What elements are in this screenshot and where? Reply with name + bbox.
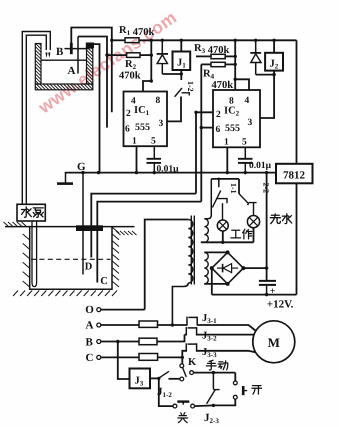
label 作 (working lamp)	[243, 229, 252, 239]
wire J1-2 pivot down to button 关	[159, 378, 173, 406]
svg-text:6: 6	[216, 125, 221, 135]
+12V bottom rail	[212, 294, 297, 296]
label 无 (no water)	[270, 214, 280, 224]
svg-text:4: 4	[245, 96, 250, 106]
svg-text:D: D	[85, 262, 93, 273]
svg-text:7812: 7812	[283, 170, 306, 182]
wire IC2 pin6	[200, 64, 202, 201]
well mouth mounting bar	[76, 225, 103, 231]
wire bridge right corner to filter cap	[243, 267, 266, 269]
wire J1 top to rail	[180, 40, 182, 51]
svg-text:M: M	[268, 335, 280, 350]
svg-text:3: 3	[248, 118, 253, 128]
wire lamp top wire down to transformer upper secondary	[204, 179, 211, 219]
svg-text:A: A	[68, 65, 76, 77]
svg-text:470k: 470k	[119, 71, 141, 82]
well water level (dashed)	[31, 258, 111, 260]
wire R1 left	[112, 39, 125, 41]
terminal O	[97, 308, 101, 312]
ground rail / common	[65, 172, 276, 174]
push button 开 (start)	[233, 381, 237, 385]
wire J1 bottom	[180, 70, 182, 80]
lamp circuit bottom wire	[201, 241, 254, 243]
node: A line joins R2	[105, 53, 108, 56]
surface hatch right	[116, 231, 137, 235]
wire IC2 pin6 line down-left to well electrode C	[97, 202, 201, 283]
diode D1 (across relay J1)	[161, 40, 163, 55]
svg-text:1-1: 1-1	[229, 183, 238, 194]
electrode support line	[65, 48, 90, 50]
svg-text:0.01μ: 0.01μ	[249, 161, 272, 171]
resistor R3	[211, 54, 225, 58]
contact J1-1 (work lamp)	[218, 179, 220, 187]
contact J2-2 (no-water lamp)	[238, 179, 240, 194]
wire: contact to IC1 pin3	[167, 97, 181, 122]
wire manual branch down to button 开	[234, 373, 236, 381]
lamp L2 (no water)	[253, 203, 255, 216]
wire: junction to IC1 pin4	[143, 81, 151, 92]
bridge inner diode symbol	[217, 267, 223, 269]
well hatch bottom	[13, 291, 117, 297]
transformer lower secondary	[204, 252, 208, 284]
wire diode D2 to J2 bottom	[256, 74, 274, 76]
op IC2 555 timer box	[213, 90, 260, 147]
wire R3/R4 right junction column	[234, 40, 236, 90]
op IC1 555 timer box	[124, 92, 168, 147]
fuse F1	[139, 321, 158, 327]
label 关 (stop)	[178, 413, 188, 423]
terminal A	[97, 323, 101, 327]
electrode A (long)	[77, 37, 79, 74]
svg-text:+: +	[270, 286, 276, 297]
wire R4 left down to IC2 pin6 line	[201, 63, 211, 65]
svg-text:8: 8	[156, 96, 161, 106]
wire: stub to IC2 pin 4	[235, 79, 249, 90]
wire O to transformer primary	[101, 309, 145, 311]
surface hatch left	[4, 222, 27, 226]
wire J3-1 to motor	[197, 325, 256, 331]
transformer T1 primary coil	[188, 220, 193, 284]
upper tank right wall top cap (solid)	[86, 43, 94, 49]
svg-text:3: 3	[159, 119, 164, 129]
svg-text:C: C	[100, 276, 108, 287]
wire 7812 down to +12V rail	[296, 183, 298, 294]
wire to button 关	[195, 404, 214, 407]
wire R2 right, down to pin4 junction	[140, 54, 151, 56]
lamp L1 (working)	[222, 203, 224, 220]
electrode B (short bar)	[70, 43, 73, 54]
transformer upper secondary	[204, 219, 208, 243]
relay coil J2	[265, 53, 283, 71]
terminal C	[97, 355, 101, 359]
ground surface line	[5, 226, 135, 228]
wire primary top to O line	[145, 220, 189, 310]
wire cap column up to ground rail	[266, 173, 268, 281]
capacitor C1 0.01u	[153, 146, 155, 159]
resistor R4	[211, 62, 225, 66]
svg-text:6: 6	[125, 125, 130, 135]
wire J2 bottom down to IC2 pin3	[260, 71, 274, 118]
relay coil J3	[130, 369, 151, 389]
bridge rectifier	[212, 252, 244, 284]
label 工 (working lamp)	[231, 230, 241, 238]
water droplets at pipe outlet	[45, 53, 50, 59]
relay coil J1	[173, 52, 191, 71]
inlet pipe from pump to upper tank	[22, 32, 50, 205]
wire C line	[101, 356, 139, 358]
wire R3 left down to IC2 pin2 line	[196, 55, 211, 57]
motor M	[253, 321, 295, 363]
contact J3-3	[182, 351, 186, 358]
ground symbol	[65, 173, 67, 183]
svg-text:+12V.: +12V.	[267, 299, 294, 311]
wire R2 left	[107, 54, 127, 56]
svg-text:1: 1	[132, 137, 137, 147]
lamp circuit top wire	[211, 178, 239, 180]
push button 关 (stop)	[173, 404, 177, 408]
contact J1-2 (in line below J1)	[175, 88, 182, 97]
svg-text:C: C	[86, 352, 94, 364]
svg-text:5: 5	[151, 137, 156, 147]
svg-text:1-2: 1-2	[186, 81, 195, 92]
svg-text:A: A	[86, 319, 94, 331]
svg-text:555: 555	[135, 122, 150, 133]
wire right edge rail (top to 7812)	[296, 40, 298, 164]
label 泵 (pump box)	[33, 208, 43, 217]
svg-text:1: 1	[224, 138, 229, 148]
svg-text:K: K	[188, 357, 197, 368]
resistor R1	[125, 38, 139, 43]
label 水 (no water)	[282, 214, 291, 224]
contact J3-2	[185, 327, 187, 335]
svg-text:555: 555	[225, 123, 240, 134]
wire: electrode A up and right	[78, 37, 107, 128]
upper tank bottom (hatched)	[35, 84, 93, 90]
svg-text:5: 5	[242, 138, 247, 148]
regulator 7812	[276, 164, 313, 184]
well hatch right	[113, 228, 120, 288]
upper tank right wall (hatched)	[87, 48, 93, 84]
wire J3-3 to motor	[197, 351, 256, 353]
fuse F2	[139, 338, 157, 345]
wire: tank common (right wall cap) down to ground rail	[90, 44, 100, 173]
wire: J1 bottom left to diode	[162, 73, 181, 75]
wire J3-2 to motor	[185, 334, 187, 336]
resistor R2	[127, 53, 141, 58]
contact J1-2 (bottom)	[159, 371, 169, 378]
label 水 (pump box)	[21, 207, 31, 217]
label 动 (manual)	[218, 361, 228, 370]
suction pipe in well	[32, 221, 37, 286]
upper tank left wall (hatched)	[35, 44, 41, 85]
wire IC2 pin1 to ground rail	[226, 147, 228, 172]
transformer core	[190, 216, 192, 285]
wire IC2 pin2 line down-left to well electrode	[195, 112, 197, 193]
wire: top supply rail y=40	[139, 39, 297, 41]
svg-text:B: B	[86, 336, 94, 348]
well hatch left	[23, 234, 30, 287]
wire J2 top to rail	[273, 40, 275, 53]
wire button 开 bottom	[213, 399, 235, 405]
terminal B	[97, 340, 101, 344]
filter capacitor (electrolytic)	[259, 280, 276, 282]
svg-text:O: O	[85, 304, 94, 316]
wire manual branch	[194, 372, 236, 374]
label 开 (start)	[252, 386, 262, 394]
wire ground rail down to well electrode	[82, 173, 84, 275]
wire A line	[101, 324, 139, 326]
wire B line to J3 coil	[118, 342, 130, 380]
contact J3-1	[186, 317, 188, 326]
svg-text:G: G	[77, 161, 86, 173]
fuse F3	[139, 354, 158, 361]
wire IC2 pin2	[196, 111, 213, 113]
svg-text:B: B	[56, 46, 64, 58]
wire lamp L2 bottom	[253, 228, 255, 243]
wire bridge left corner to +12V rail	[211, 268, 213, 295]
contact J2-3	[212, 373, 214, 390]
water level line in upper tank	[41, 59, 87, 61]
wire IC1 pin1 to ground rail	[136, 146, 138, 172]
wire J3 coil to contact J1-2	[150, 377, 159, 379]
well pit walls	[30, 227, 112, 290]
wire B line	[101, 341, 139, 343]
pump box 水泵	[17, 204, 45, 221]
wire lower secondary bottom to bridge	[204, 283, 227, 285]
label 手 (manual)	[206, 360, 216, 370]
svg-text:2: 2	[126, 109, 131, 119]
switch K (manual/auto selector)	[181, 357, 183, 363]
svg-text:2: 2	[216, 110, 221, 120]
capacitor C2 0.01u	[244, 147, 246, 159]
wire primary bottom to A line	[172, 283, 188, 325]
wire lower secondary top to bridge	[204, 251, 227, 253]
wire lamp L1 bottom	[222, 231, 224, 242]
node: B line joins R1 rail	[110, 39, 113, 42]
diode D2 (across relay J2)	[255, 40, 257, 54]
wire: electrode B up and right to node	[71, 28, 112, 113]
